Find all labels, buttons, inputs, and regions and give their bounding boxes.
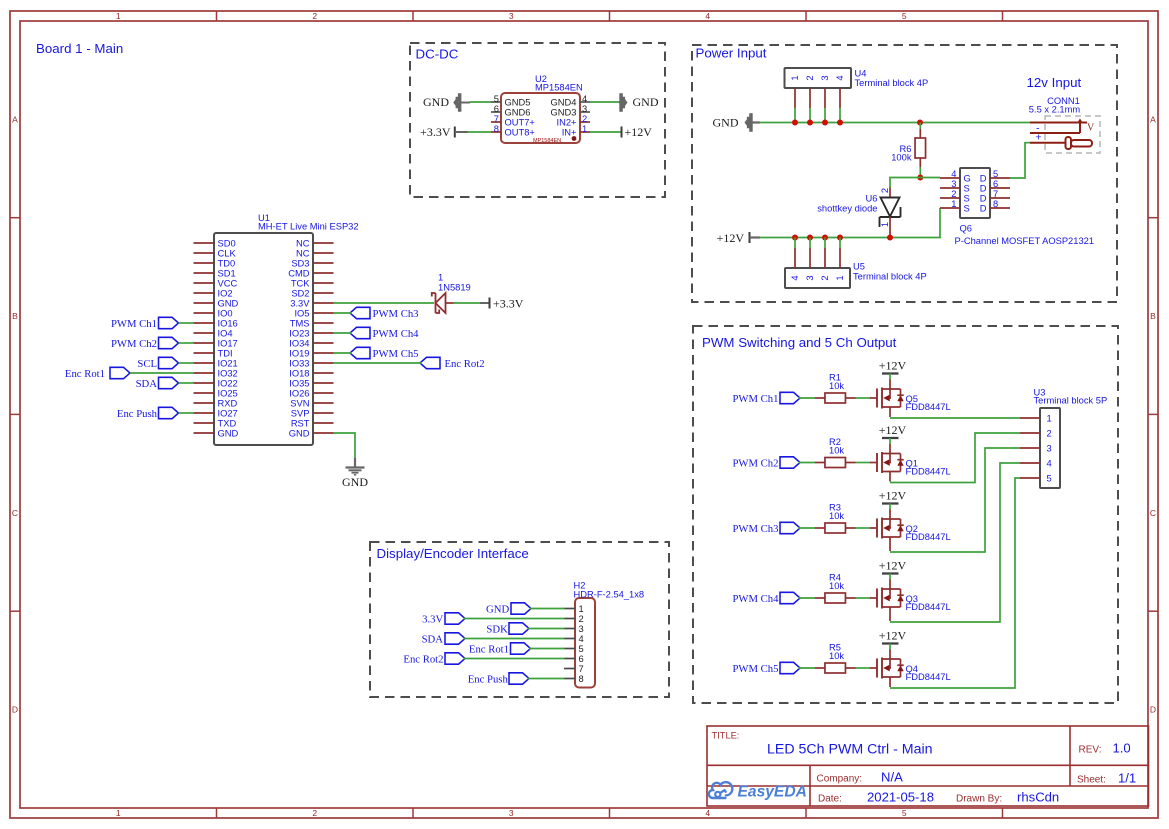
- net label GND (display header): [486, 603, 531, 616]
- net label PWM Ch3 (pwm section): [732, 522, 800, 535]
- wire Q1 source to U3.2: [890, 433, 1020, 483]
- wire U4.2 drop: [809, 108, 811, 123]
- wire GND to H2 pin: [530, 608, 565, 610]
- net label Enc Rot2 (display header): [403, 653, 465, 666]
- svg-text:1/1: 1/1: [1118, 771, 1136, 786]
- svg-text:CLK: CLK: [218, 248, 237, 258]
- svg-text:PWM Ch4: PWM Ch4: [732, 593, 779, 605]
- svg-text:3: 3: [582, 104, 587, 114]
- wire U2.1 to +12V: [590, 131, 621, 133]
- junction U5.3: [822, 235, 828, 241]
- ground flag GND (power input): [713, 113, 761, 131]
- svg-text:U6: U6: [866, 193, 878, 203]
- svg-text:7: 7: [494, 114, 499, 124]
- svg-text:IO26: IO26: [289, 388, 309, 398]
- svg-text:1: 1: [438, 273, 443, 283]
- svg-text:PWM Ch2: PWM Ch2: [732, 457, 778, 469]
- svg-text:GND5: GND5: [505, 98, 531, 108]
- svg-text:B: B: [12, 311, 18, 321]
- section box PWM Switching and 5 Ch Output: [693, 326, 1118, 703]
- svg-text:10k: 10k: [829, 445, 844, 455]
- wire PWM Ch1 to U1.IO16: [179, 322, 195, 324]
- svg-text:GND: GND: [342, 475, 368, 489]
- svg-text:1: 1: [880, 222, 890, 227]
- svg-text:Company:: Company:: [817, 774, 863, 785]
- junction U4.3: [822, 120, 828, 126]
- svg-text:5.5 x 2.1mm: 5.5 x 2.1mm: [1029, 104, 1081, 114]
- net label Enc Rot2: [420, 357, 485, 370]
- svg-text:IN2+: IN2+: [557, 118, 577, 128]
- resistor R1 10k: [815, 373, 856, 404]
- svg-text:GND: GND: [423, 95, 449, 109]
- svg-text:5: 5: [579, 644, 584, 654]
- svg-text:PWM Ch1: PWM Ch1: [111, 318, 157, 330]
- power flag +12V (Q4 drain): [879, 629, 907, 650]
- svg-text:+3.3V: +3.3V: [493, 297, 524, 311]
- svg-text:FDD8447L: FDD8447L: [906, 467, 951, 477]
- ground GND symbol: [342, 458, 368, 489]
- svg-text:1N5819: 1N5819: [438, 283, 471, 293]
- connector H2 HDR-F-2.54_1x8: [564, 580, 644, 687]
- svg-text:SD0: SD0: [218, 238, 236, 248]
- annotation Board 1 - Main: [36, 41, 123, 56]
- svg-text:Enc Rot2: Enc Rot2: [445, 358, 485, 370]
- svg-text:MH-ET Live Mini ESP32: MH-ET Live Mini ESP32: [258, 222, 359, 232]
- svg-text:2: 2: [582, 114, 587, 124]
- svg-text:PWM Ch2: PWM Ch2: [111, 338, 157, 350]
- svg-text:GND: GND: [633, 95, 659, 109]
- wire Q4 source to U3.5: [890, 478, 1020, 688]
- svg-text:1: 1: [1047, 414, 1052, 424]
- wire Enc Push to H2 pin: [528, 678, 565, 680]
- svg-text:SVN: SVN: [290, 398, 309, 408]
- annotation 12v Input: [1027, 75, 1082, 90]
- resistor R3 10k: [815, 503, 856, 534]
- EasyEDA logo: [709, 782, 807, 800]
- svg-text:FDD8447L: FDD8447L: [906, 672, 951, 682]
- power flag +12V (right of U2): [622, 125, 653, 139]
- svg-text:GND3: GND3: [551, 108, 577, 118]
- power flag +12V (Q1 drain): [879, 423, 907, 444]
- svg-text:+12V: +12V: [625, 125, 653, 139]
- power flag +12V (Q2 drain): [879, 489, 907, 510]
- net label PWM Ch4: [350, 327, 419, 340]
- svg-text:2021-05-18: 2021-05-18: [867, 790, 934, 805]
- wire Enc Rot2 to H2 pin: [464, 658, 565, 660]
- svg-text:MP1584EN: MP1584EN: [535, 82, 583, 92]
- wire PWM Ch2 to U1.IO17: [179, 342, 195, 344]
- wire Q3 source to U3.4: [890, 463, 1020, 622]
- svg-text:RXD: RXD: [218, 398, 238, 408]
- svg-text:SDA: SDA: [422, 633, 444, 645]
- wire 3.3V to H2 pin: [464, 618, 565, 620]
- net label PWM Ch1: [111, 317, 179, 330]
- wire +12V bus: [760, 208, 941, 238]
- svg-text:2: 2: [1047, 429, 1052, 439]
- svg-text:1: 1: [116, 808, 121, 818]
- svg-text:Display/Encoder Interface: Display/Encoder Interface: [377, 546, 529, 561]
- title block: [707, 726, 1149, 806]
- wire U5.2 rise: [824, 238, 826, 249]
- wire PWM Ch3 to R3: [799, 527, 816, 529]
- svg-text:3: 3: [579, 624, 584, 634]
- wire U1.IO19 to PWM Ch5: [334, 352, 352, 354]
- wire U4.3 drop: [824, 108, 826, 123]
- wire U1.IO23 to PWM Ch4: [334, 332, 352, 334]
- wire R4 to Q3 gate: [856, 597, 871, 599]
- net label Enc Push (display header): [468, 673, 529, 686]
- junction R6 top: [917, 120, 923, 126]
- wire GND to U2.5: [470, 101, 492, 103]
- wire Enc Rot1 to U1.IO32: [130, 372, 194, 374]
- svg-text:2: 2: [312, 808, 317, 818]
- svg-text:FDD8447L: FDD8447L: [906, 602, 951, 612]
- svg-text:5: 5: [902, 11, 907, 21]
- wire U1.3.3V to diode: [334, 302, 435, 304]
- svg-text:CMD: CMD: [288, 268, 310, 278]
- svg-text:B: B: [1150, 311, 1156, 321]
- svg-text:FDD8447L: FDD8447L: [906, 532, 951, 542]
- wire diode to +3.3V: [454, 302, 490, 304]
- svg-text:100k: 100k: [891, 153, 912, 163]
- wire Enc Rot1 to H2 pin: [529, 648, 565, 650]
- svg-text:FDD8447L: FDD8447L: [906, 402, 951, 412]
- junction U6 cathode: [887, 235, 893, 241]
- wire Q2 source to U3.3: [890, 448, 1020, 552]
- svg-text:4: 4: [582, 94, 587, 104]
- svg-text:PWM Ch5: PWM Ch5: [732, 663, 778, 675]
- diode D1 1N5819 (schottky): [432, 273, 471, 314]
- wire SDA to H2 pin: [464, 638, 565, 640]
- svg-text:Power Input: Power Input: [696, 46, 767, 61]
- junction U5.4: [837, 235, 843, 241]
- power flag +3.3V (left of U2): [420, 125, 468, 139]
- resistor R6 100k: [891, 129, 925, 168]
- svg-text:GND: GND: [713, 116, 739, 130]
- svg-text:SCL: SCL: [137, 358, 157, 370]
- svg-text:10k: 10k: [829, 651, 844, 661]
- svg-text:P-Channel MOSFET AOSP21321: P-Channel MOSFET AOSP21321: [955, 236, 1095, 246]
- wire gate node to U6 anode: [890, 178, 920, 189]
- svg-text:IO33: IO33: [289, 358, 309, 368]
- svg-text:IO17: IO17: [218, 338, 238, 348]
- wire R2 to Q1 gate: [856, 462, 871, 464]
- svg-text:10k: 10k: [829, 581, 844, 591]
- wire Enc Push to U1.IO27: [179, 412, 195, 414]
- power flag +12V (Q3 drain): [879, 559, 907, 580]
- junction U4.4: [837, 120, 843, 126]
- svg-text:4: 4: [835, 75, 845, 80]
- svg-text:4: 4: [951, 169, 956, 179]
- net label SDA (display header): [422, 633, 465, 646]
- svg-text:S: S: [964, 204, 970, 214]
- svg-text:Enc Rot1: Enc Rot1: [65, 368, 105, 380]
- svg-text:+12V: +12V: [717, 231, 745, 245]
- svg-text:3.3V: 3.3V: [290, 298, 310, 308]
- junction R6 / U6 / Q6 gate: [917, 175, 923, 181]
- svg-text:C: C: [12, 508, 18, 518]
- wire R1 to Q5 gate: [856, 397, 871, 399]
- resistor R2 10k: [815, 437, 856, 468]
- connector U4 Terminal block 4P: [785, 68, 929, 108]
- svg-text:PWM Ch3: PWM Ch3: [732, 523, 778, 535]
- wire R3 to Q2 gate: [856, 527, 871, 529]
- svg-text:IO23: IO23: [289, 328, 309, 338]
- svg-text:3: 3: [951, 179, 956, 189]
- wire U1.IO5 to PWM Ch3: [334, 312, 352, 314]
- svg-text:6: 6: [494, 104, 499, 114]
- svg-text:VCC: VCC: [218, 278, 238, 288]
- svg-text:GND: GND: [218, 428, 239, 438]
- svg-text:3: 3: [509, 808, 514, 818]
- svg-text:7: 7: [993, 189, 998, 199]
- svg-text:D: D: [980, 184, 987, 194]
- svg-text:U5: U5: [853, 262, 865, 272]
- power flag +12V (Q5 drain): [879, 359, 907, 380]
- svg-text:4: 4: [579, 634, 584, 644]
- transistor Q2 FDD8447L: [870, 509, 951, 551]
- svg-text:3: 3: [509, 11, 514, 21]
- svg-text:2: 2: [880, 188, 890, 193]
- wire R6 top stub: [919, 123, 921, 130]
- svg-text:Sheet:: Sheet:: [1077, 775, 1106, 786]
- svg-text:Q6: Q6: [960, 223, 972, 233]
- junction U5.2: [807, 235, 813, 241]
- svg-text:Drawn By:: Drawn By:: [956, 794, 1002, 805]
- svg-text:PWM Ch1: PWM Ch1: [732, 393, 778, 405]
- net label Enc Rot1 (display header): [469, 643, 531, 656]
- svg-text:Enc Rot1: Enc Rot1: [469, 643, 509, 655]
- svg-text:8: 8: [494, 124, 499, 134]
- section box Power Input: [692, 45, 1117, 302]
- svg-text:OUT7+: OUT7+: [505, 118, 535, 128]
- svg-text:TMS: TMS: [290, 318, 310, 328]
- IC U2 MP1584EN: [491, 74, 590, 144]
- svg-text:GND: GND: [289, 428, 310, 438]
- svg-text:N/A: N/A: [881, 770, 903, 785]
- svg-text:G: G: [964, 174, 971, 184]
- section box Display/Encoder Interface: [370, 542, 669, 697]
- net label PWM Ch2: [111, 337, 179, 350]
- net label SDK (display header): [486, 623, 529, 636]
- section box DC-DC: [410, 43, 665, 197]
- svg-text:+12V: +12V: [879, 359, 907, 373]
- resistor R5 10k: [815, 643, 856, 674]
- wire PWM Ch1 to R1: [799, 397, 816, 399]
- svg-text:TDI: TDI: [218, 348, 233, 358]
- svg-text:LED 5Ch PWM Ctrl - Main: LED 5Ch PWM Ctrl - Main: [767, 742, 933, 758]
- svg-text:GND: GND: [218, 298, 239, 308]
- svg-text:shottkey diode: shottkey diode: [817, 204, 877, 214]
- svg-text:GND6: GND6: [505, 108, 531, 118]
- svg-text:EasyEDA: EasyEDA: [738, 784, 807, 801]
- svg-text:12v Input: 12v Input: [1027, 75, 1082, 90]
- svg-text:PWM Ch4: PWM Ch4: [373, 328, 420, 340]
- svg-text:REV:: REV:: [1079, 745, 1102, 756]
- wire GND bus: [760, 122, 1031, 124]
- wire U5.1 rise: [839, 238, 841, 249]
- svg-text:Enc Push: Enc Push: [468, 673, 509, 685]
- svg-text:2: 2: [805, 75, 815, 80]
- svg-text:Enc Rot2: Enc Rot2: [403, 653, 443, 665]
- svg-text:IN+: IN+: [562, 128, 577, 138]
- svg-text:Enc Push: Enc Push: [117, 408, 158, 420]
- svg-text:PWM Ch3: PWM Ch3: [373, 308, 419, 320]
- net label Enc Push: [117, 407, 179, 420]
- svg-text:SD3: SD3: [291, 258, 309, 268]
- svg-text:S: S: [964, 184, 970, 194]
- net label PWM Ch5: [350, 347, 419, 360]
- svg-text:1: 1: [951, 199, 956, 209]
- svg-text:8: 8: [579, 674, 584, 684]
- svg-text:SD1: SD1: [218, 268, 236, 278]
- svg-text:3: 3: [805, 275, 815, 280]
- svg-text:IO4: IO4: [218, 328, 233, 338]
- svg-text:IO32: IO32: [218, 368, 238, 378]
- svg-text:MP1584EN: MP1584EN: [533, 138, 561, 144]
- svg-text:NC: NC: [296, 248, 310, 258]
- svg-text:1: 1: [790, 75, 800, 80]
- svg-text:IO5: IO5: [294, 308, 309, 318]
- net label PWM Ch1 (pwm section): [732, 392, 800, 405]
- connector CONN1 5.5 x 2.1mm barrel jack: [1029, 96, 1100, 153]
- svg-text:10k: 10k: [829, 511, 844, 521]
- net label PWM Ch5 (pwm section): [732, 662, 800, 675]
- svg-text:SDA: SDA: [136, 378, 158, 390]
- svg-text:D: D: [1150, 705, 1156, 715]
- wire R5 to Q4 gate: [856, 667, 871, 669]
- transistor Q1 FDD8447L: [870, 444, 951, 482]
- svg-text:IO25: IO25: [218, 388, 238, 398]
- svg-text:7: 7: [579, 664, 584, 674]
- svg-text:1.0: 1.0: [1113, 741, 1131, 756]
- svg-text:1: 1: [835, 275, 845, 280]
- net label PWM Ch4 (pwm section): [732, 592, 800, 605]
- svg-text:5: 5: [902, 808, 907, 818]
- net label PWM Ch3: [350, 307, 419, 320]
- transistor Q5 FDD8447L: [870, 379, 951, 417]
- svg-text:6: 6: [993, 179, 998, 189]
- resistor R4 10k: [815, 573, 856, 604]
- wire R6 bottom to gate node: [919, 167, 921, 178]
- svg-text:4: 4: [705, 11, 710, 21]
- svg-text:S: S: [964, 194, 970, 204]
- svg-text:IO2: IO2: [218, 288, 233, 298]
- svg-text:IO18: IO18: [289, 368, 309, 378]
- svg-text:4: 4: [705, 808, 710, 818]
- svg-text:5: 5: [1047, 474, 1052, 484]
- svg-text:IO16: IO16: [218, 318, 238, 328]
- wire U5.4 rise: [794, 238, 796, 249]
- svg-text:+12V: +12V: [879, 559, 907, 573]
- svg-text:HDR-F-2.54_1x8: HDR-F-2.54_1x8: [574, 589, 645, 599]
- svg-text:TXD: TXD: [218, 418, 237, 428]
- wire U1.IO33 to Enc Rot2: [334, 362, 422, 364]
- svg-text:3: 3: [820, 75, 830, 80]
- wire SCL to U1.IO21: [179, 362, 195, 364]
- svg-text:TITLE:: TITLE:: [712, 731, 740, 741]
- connector U3 Terminal block 5P: [1020, 387, 1107, 488]
- wire gate node to Q6.4: [920, 177, 940, 179]
- net label SDA: [136, 377, 179, 390]
- svg-text:5: 5: [993, 169, 998, 179]
- wire U4.1 drop: [794, 108, 796, 123]
- svg-text:A: A: [1150, 114, 1156, 124]
- svg-text:D: D: [980, 204, 987, 214]
- wire PWM Ch5 to R5: [799, 667, 816, 669]
- net label SCL: [137, 357, 178, 370]
- wire U2.4 to GND: [590, 101, 620, 103]
- junction U5.1: [792, 235, 798, 241]
- power flag +12V (power input): [717, 231, 760, 245]
- IC U1 MH-ET Live Mini ESP32: [194, 213, 359, 445]
- svg-text:SD2: SD2: [291, 288, 309, 298]
- svg-text:Terminal block 5P: Terminal block 5P: [1034, 396, 1108, 406]
- svg-text:+3.3V: +3.3V: [420, 125, 451, 139]
- svg-text:D: D: [980, 194, 987, 204]
- svg-text:6: 6: [579, 654, 584, 664]
- svg-text:+: +: [1035, 131, 1041, 143]
- svg-text:IO27: IO27: [218, 408, 238, 418]
- svg-text:4: 4: [1047, 459, 1052, 469]
- svg-text:DC-DC: DC-DC: [416, 47, 459, 62]
- svg-text:C: C: [1150, 508, 1156, 518]
- svg-text:Board 1 - Main: Board 1 - Main: [36, 41, 123, 56]
- transistor Q4 FDD8447L: [870, 649, 951, 687]
- svg-text:+12V: +12V: [879, 629, 907, 643]
- svg-text:RST: RST: [291, 418, 310, 428]
- svg-text:2: 2: [312, 11, 317, 21]
- svg-text:4: 4: [790, 275, 800, 280]
- junction U4.1: [792, 120, 798, 126]
- svg-text:IO19: IO19: [289, 348, 309, 358]
- svg-text:Terminal block 4P: Terminal block 4P: [855, 78, 929, 88]
- svg-text:SDK: SDK: [486, 623, 508, 635]
- svg-text:GND4: GND4: [551, 98, 577, 108]
- svg-text:8: 8: [993, 199, 998, 209]
- svg-text:5: 5: [494, 94, 499, 104]
- svg-text:U4: U4: [855, 69, 867, 79]
- net label PWM Ch2 (pwm section): [732, 457, 800, 470]
- svg-text:IO21: IO21: [218, 358, 238, 368]
- wire U1.GND down: [334, 433, 356, 458]
- svg-text:2: 2: [820, 275, 830, 280]
- svg-text:3.3V: 3.3V: [422, 613, 443, 625]
- svg-text:SVP: SVP: [291, 408, 310, 418]
- svg-text:Terminal block 4P: Terminal block 4P: [853, 272, 927, 282]
- svg-text:+12V: +12V: [879, 423, 907, 437]
- svg-text:10k: 10k: [829, 381, 844, 391]
- svg-text:D: D: [12, 705, 18, 715]
- wire PWM Ch2 to R2: [799, 462, 816, 464]
- svg-text:IO35: IO35: [289, 378, 309, 388]
- wire Q6.5 to CONN1 +: [1010, 143, 1031, 178]
- svg-text:rhsCdn: rhsCdn: [1017, 790, 1059, 805]
- svg-text:IO34: IO34: [289, 338, 309, 348]
- wire SDK to H2 pin: [528, 628, 565, 630]
- svg-text:2: 2: [579, 614, 584, 624]
- svg-text:1: 1: [582, 124, 587, 134]
- net label 3.3V (display header): [422, 613, 465, 626]
- wire PWM Ch4 to R4: [799, 597, 816, 599]
- transistor Q3 FDD8447L: [870, 579, 951, 621]
- wire Q5 source to U3.1: [890, 417, 1020, 419]
- svg-text:NC: NC: [296, 238, 310, 248]
- svg-text:V: V: [1087, 123, 1095, 134]
- diode U6 shottkey diode: [817, 188, 900, 238]
- svg-text:IO22: IO22: [218, 378, 238, 388]
- svg-text:OUT8+: OUT8+: [505, 128, 535, 138]
